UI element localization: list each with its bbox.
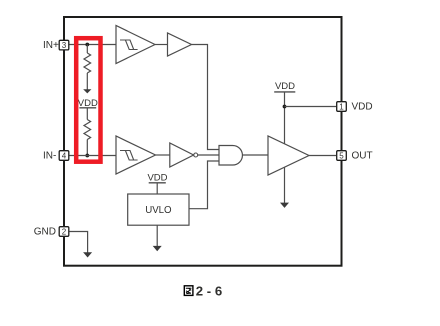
svg-text:IN-: IN- — [43, 151, 56, 162]
wire VDD to UVLO — [156, 183, 158, 194]
ground arrow below buffer U6 — [280, 203, 289, 208]
red highlight rectangle around input divider — [76, 38, 100, 162]
wire UVLO output to AND gate bottom input — [189, 161, 219, 209]
svg-text:4: 4 — [62, 151, 67, 160]
svg-text:5: 5 — [339, 151, 344, 160]
pin 5 box — [337, 151, 347, 161]
node A junction dot on IN+ line — [85, 43, 89, 47]
pin 2 box — [59, 227, 69, 237]
node C junction dot on VDD line — [283, 105, 287, 109]
schmitt trigger U1 (IN+ path) — [116, 26, 155, 64]
wire AND output to buffer U6 — [243, 154, 269, 156]
buffer U3 — [168, 33, 192, 56]
hysteresis symbol in U1 — [120, 40, 138, 50]
svg-text:GND: GND — [34, 227, 56, 238]
wire IN+ to Schmitt U1 — [70, 44, 117, 46]
wire U3 output to AND gate top input — [192, 45, 220, 150]
schmitt trigger U2 (IN- path) — [116, 136, 156, 174]
output buffer U6 — [268, 136, 309, 175]
pin 1 box — [337, 102, 347, 112]
caption 图2-6 — [184, 283, 222, 298]
wire U2 to inverter U4 — [156, 154, 170, 156]
node B junction dot on IN- line — [85, 154, 89, 158]
svg-text:3: 3 — [62, 41, 67, 50]
ground arrow at GND pin — [83, 252, 92, 257]
svg-text:1: 1 — [339, 102, 344, 111]
hysteresis symbol in U2 — [120, 151, 138, 161]
wire UVLO to ground — [156, 225, 158, 247]
ground arrow below UVLO — [153, 246, 162, 251]
wire buffer U6 output to pin 5 — [309, 155, 336, 157]
pin 3 box — [59, 40, 69, 50]
wire VDD rail down to buffer U6 — [284, 92, 286, 144]
svg-text:VDD: VDD — [147, 173, 167, 184]
resistor R2 (pull-up on IN-) — [84, 120, 91, 140]
UVLO block — [128, 194, 189, 225]
svg-text:UVLO: UVLO — [145, 205, 172, 216]
svg-text:IN+: IN+ — [43, 40, 59, 51]
pin 4 box — [59, 151, 69, 161]
inverter U4 output bubble — [194, 153, 198, 157]
svg-text:VDD: VDD — [352, 101, 373, 112]
AND gate U5 — [219, 146, 242, 166]
wire U1 to buffer U3 — [155, 44, 168, 46]
svg-text:VDD: VDD — [275, 81, 295, 92]
wire R2 top lead — [86, 108, 88, 120]
wire R1 bottom lead — [86, 73, 88, 90]
wire VDD node to pin 1 — [285, 106, 337, 108]
ground arrow below R1 — [83, 89, 91, 93]
wire IN- to Schmitt U2 — [70, 155, 117, 157]
IC outer boundary box — [64, 17, 342, 266]
resistor R1 (pull-down on IN+) — [84, 53, 91, 73]
wire U4 to AND gate middle input — [198, 154, 219, 156]
svg-text:OUT: OUT — [352, 151, 373, 162]
svg-text:2: 2 — [62, 227, 67, 236]
wire R1 top lead — [86, 45, 88, 54]
svg-text:2 - 6: 2 - 6 — [196, 283, 222, 298]
wire buffer U6 to ground — [284, 167, 286, 203]
inverter U4 — [170, 143, 194, 167]
wire R2 bottom lead — [86, 140, 88, 156]
wire GND pin to ground — [70, 232, 88, 254]
